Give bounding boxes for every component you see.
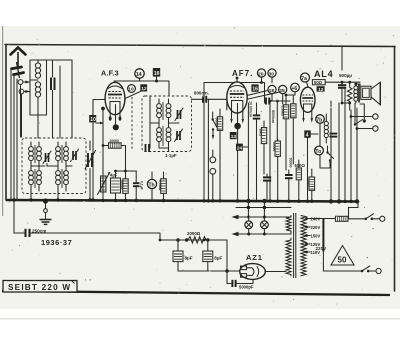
wire y171 node — [116, 170, 137, 171]
wire right vertical to osc — [71, 60, 73, 138]
svg-text:Th: Th — [149, 182, 155, 188]
oscillator coil dashed box — [22, 138, 86, 194]
ground bus — [7, 200, 358, 202]
wire x256 down — [256, 129, 258, 200]
transformer tap 110V — [305, 250, 320, 255]
tone switch — [320, 146, 334, 168]
frame bottom wire — [2, 291, 390, 295]
wire Th stems — [151, 172, 153, 200]
tube AL4 — [300, 87, 315, 112]
wire riser to bandfilter — [168, 81, 170, 96]
mains feed wire top — [308, 218, 335, 221]
capacitor 5000pF — [232, 280, 235, 287]
mains transformer core — [294, 213, 296, 278]
frame right wire — [394, 47, 396, 292]
choke coil — [324, 114, 328, 143]
junction dot bus-ground — [43, 198, 48, 203]
svg-text:50000: 50000 — [215, 118, 219, 128]
svg-text:4µF: 4µF — [110, 173, 118, 178]
bf trimmer 1 — [175, 108, 183, 121]
mains terminal 1 — [380, 216, 385, 221]
lamp wire bottom with arrow — [232, 232, 292, 236]
svg-text:25: 25 — [279, 88, 285, 94]
wire frame drop x342 — [341, 46, 343, 70]
tone cap — [330, 134, 338, 137]
wire anode top to speaker — [356, 84, 360, 86]
junction dots misc — [102, 81, 359, 242]
svg-text:To: To — [315, 149, 321, 155]
tube AF7 — [227, 77, 247, 114]
voltage selector bar — [322, 219, 324, 252]
wire 2000 node down — [226, 240, 228, 271]
tube AF3 — [105, 82, 125, 114]
dashed AVC line — [131, 97, 133, 150]
tube AF3 cathode lead dot — [113, 114, 119, 130]
tube AL4 pin arrows — [302, 118, 304, 123]
svg-text:600Ω: 600Ω — [295, 163, 306, 168]
bf series cap — [146, 144, 150, 152]
osc coil L3b — [64, 142, 69, 166]
svg-text:0,3MΩ: 0,3MΩ — [158, 180, 162, 191]
capacitor 0.1uF — [133, 171, 140, 200]
svg-text:50: 50 — [338, 256, 347, 265]
SEIBT 220 W title box — [3, 281, 77, 293]
wire top of coil box — [38, 59, 72, 61]
cathode cap b — [285, 170, 293, 200]
tag box 10 left — [89, 115, 96, 123]
cathode cap a — [263, 174, 271, 200]
wire right vertical E — [356, 108, 358, 200]
pickup terminal 2 — [210, 168, 216, 200]
svg-text:30000: 30000 — [288, 158, 292, 168]
ground symbol — [40, 202, 52, 225]
feedback resistor zigzag — [347, 82, 352, 103]
tube AF3 pin arrows — [110, 113, 120, 117]
tag box 12b — [317, 86, 325, 92]
svg-text:13: 13 — [231, 134, 237, 140]
resistor 50000b vertical — [217, 109, 222, 200]
svg-text:8µF: 8µF — [214, 256, 222, 261]
transformer tap 240V — [305, 217, 320, 222]
bf trimmer 2 — [175, 129, 183, 142]
svg-text:220V: 220V — [311, 225, 321, 230]
resistor 50ohm box — [312, 80, 325, 85]
svg-text:5000cm: 5000cm — [271, 110, 275, 123]
tag box 16b — [251, 84, 258, 92]
svg-text:12: 12 — [318, 87, 324, 92]
bandfilter dashed box — [142, 96, 192, 152]
tuning cap variable — [85, 141, 96, 200]
svg-text:30: 30 — [269, 71, 275, 77]
tag circle 14 — [135, 69, 144, 81]
svg-text:220V: 220V — [316, 246, 328, 251]
wire AZ1 to transformer — [265, 271, 286, 273]
wire heater return — [178, 270, 227, 272]
svg-text:1MΩ: 1MΩ — [258, 129, 262, 137]
pointer wires to tags — [247, 91, 278, 100]
svg-text:AF7.: AF7. — [232, 69, 253, 78]
resistor 0.3M vertical b — [291, 95, 296, 164]
osc coil L2b — [37, 142, 42, 166]
resistor 10000 horizontal — [103, 143, 126, 170]
wire left vertical 1 — [10, 70, 12, 200]
transformer tap 220V — [305, 225, 320, 230]
wire right vertical B — [338, 103, 340, 200]
tag circle 10 — [128, 85, 136, 93]
wire right vertical D — [350, 110, 352, 200]
svg-text:1936·37: 1936·37 — [41, 238, 72, 247]
screen bypass cap — [253, 103, 260, 129]
pickup terminal 1 — [210, 150, 216, 163]
mains transformer secondary winding — [301, 216, 306, 276]
lamp wire top with arrow — [232, 215, 292, 219]
tube AF7 pin arrows — [230, 119, 232, 124]
wire terminal A down — [20, 85, 22, 138]
grid coupling cap — [192, 96, 227, 103]
svg-text:A.F.3: A.F.3 — [101, 69, 119, 78]
resistor pickup vertical — [161, 172, 167, 200]
svg-text:150Ω: 150Ω — [306, 178, 310, 187]
output transformer — [354, 84, 360, 103]
coupling cap AF7 anode — [265, 98, 291, 105]
wires inside osc box to bus — [31, 164, 72, 201]
frame left wire — [5, 45, 7, 201]
junction dots bus — [12, 198, 359, 203]
bf coil 1a — [157, 99, 162, 123]
resistor 0.3M vertical a — [283, 95, 288, 170]
smoothing wire y240 — [160, 239, 227, 241]
tag box 12 — [125, 84, 147, 98]
wire y233 to psu — [31, 233, 160, 240]
wire x60 — [59, 66, 61, 138]
osc coil L3d — [64, 166, 69, 191]
volume potentiometer — [98, 172, 111, 195]
resistor 2000 zigzag — [185, 237, 210, 243]
bf coil 2a — [157, 123, 162, 148]
tag box 24 — [236, 144, 248, 152]
wire x270 — [269, 101, 271, 200]
wire coil box bottom — [38, 101, 53, 138]
fuse — [335, 216, 364, 221]
resistor bias vertical — [309, 169, 315, 200]
svg-text:2000Ω: 2000Ω — [187, 231, 201, 236]
svg-text:12: 12 — [141, 86, 147, 92]
svg-text:5000pF: 5000pF — [239, 285, 254, 290]
svg-text:500µµ: 500µµ — [339, 73, 352, 78]
wire x277 — [276, 101, 278, 141]
tag circle 7a — [301, 73, 310, 87]
tag circle 18 — [268, 85, 276, 93]
mains switch top — [364, 214, 379, 220]
transformer tap 125V — [305, 242, 320, 247]
svg-text:+6: +6 — [292, 86, 298, 92]
tag stems — [272, 77, 283, 104]
bf coil 2b — [166, 123, 171, 148]
svg-text:20000: 20000 — [272, 142, 276, 152]
wire AZ1 anode left — [227, 270, 240, 272]
resistor 600 vertical — [296, 160, 301, 200]
osc trimmer cap 2 — [71, 149, 79, 162]
junction dots lamp wire — [247, 206, 250, 209]
dial lamp 2 — [261, 216, 269, 236]
osc coil L2a — [29, 142, 34, 166]
tag circle 7b — [316, 115, 325, 146]
wire x248 agc — [247, 103, 249, 201]
osc coil L3a — [56, 142, 61, 166]
bus dogleg — [349, 202, 359, 218]
svg-text:20: 20 — [258, 71, 264, 77]
wire speaker switch — [342, 103, 366, 126]
osc coil cores — [35, 145, 62, 188]
svg-text:14: 14 — [136, 72, 142, 78]
tag box 16 — [153, 68, 160, 83]
svg-text:16: 16 — [252, 86, 258, 92]
tag circle 20 — [257, 69, 265, 83]
osc trimmer cap 1 — [43, 151, 51, 164]
wire box10 to anode line — [96, 122, 101, 124]
wire terminal E down — [21, 94, 23, 137]
tag circle To — [315, 146, 324, 155]
electrolytic 4uF — [111, 171, 121, 200]
tag circle Th — [147, 179, 156, 188]
svg-text:7a: 7a — [301, 76, 307, 82]
dial lamp feed wire — [236, 201, 291, 217]
input coil L1 — [30, 60, 47, 115]
resistor 50000c vertical — [261, 121, 266, 174]
resistor 20000 vertical — [275, 139, 280, 200]
wire right vertical C — [344, 89, 346, 200]
frame top wire — [5, 45, 395, 47]
svg-text:10000: 10000 — [110, 139, 120, 143]
output terminal 2 — [357, 126, 378, 131]
bf coil 1b — [166, 99, 171, 123]
mains transformer HV winding left — [286, 238, 291, 276]
tube AF7 cathode dot — [234, 113, 241, 200]
osc coil L2c — [29, 166, 34, 191]
dial lamp 1 — [245, 216, 253, 236]
earth terminal E — [19, 89, 30, 94]
tube AZ1 — [240, 264, 266, 280]
tone cap 500 — [338, 85, 346, 103]
wire x208 grid return — [207, 99, 209, 200]
antenna plug contacts — [12, 62, 24, 78]
bf coil cores — [162, 102, 164, 146]
mains terminal 2 — [376, 268, 381, 273]
wire x103 — [102, 110, 104, 200]
svg-text:8µF: 8µF — [185, 256, 193, 261]
mains switch bottom — [361, 266, 376, 272]
svg-text:800cm.: 800cm. — [194, 91, 209, 96]
tag circle 30 — [268, 69, 276, 77]
junction dot AZ1 — [225, 269, 229, 273]
wire AF3 anode top — [114, 81, 169, 82]
svg-text:AL4: AL4 — [314, 69, 333, 79]
anode wire AL4 — [325, 82, 360, 84]
tag box 13 — [230, 132, 237, 140]
capacitor C1 — [51, 60, 55, 101]
tag box 4 — [304, 130, 318, 200]
output terminal 1 — [351, 114, 378, 119]
bf inner wires — [150, 96, 179, 152]
osc coil L2d — [37, 166, 42, 191]
osc coil L3c — [56, 166, 61, 191]
svg-text:10.000cm: 10.000cm — [249, 101, 253, 117]
fuse triangle mark 50 — [331, 246, 354, 266]
svg-text:SEIBT 220 W: SEIBT 220 W — [8, 283, 71, 292]
tag circle +6 — [291, 83, 300, 92]
wire box10 to bus — [92, 122, 94, 200]
svg-text:7b: 7b — [316, 117, 322, 123]
electrolytic 8uF b — [203, 240, 213, 271]
wire left vertical 2 — [13, 76, 15, 200]
antenna terminal A — [18, 80, 30, 85]
wire right vertical A — [330, 101, 332, 200]
transformer tap 150V — [305, 234, 320, 239]
AF7 screen box wire — [204, 83, 265, 201]
wire to blocking cap — [14, 200, 24, 233]
wave switch — [212, 112, 218, 140]
selector to switch wire — [323, 252, 360, 272]
wire AF3 grid left — [93, 100, 105, 116]
capacitor 250cm — [26, 229, 30, 237]
antenna — [11, 48, 26, 68]
svg-text:50000: 50000 — [120, 180, 124, 190]
svg-text:50Ω: 50Ω — [314, 80, 323, 85]
svg-text:AZ1: AZ1 — [246, 253, 263, 262]
svg-text:24: 24 — [237, 145, 243, 151]
electrolytic 8uF a — [173, 238, 183, 271]
resistor 50000 vertical — [123, 170, 128, 200]
svg-text:0,3MΩ: 0,3MΩ — [281, 106, 285, 117]
wire screen node — [286, 92, 295, 95]
wire x226.8 grid — [226, 99, 228, 110]
mains transformer primary heater winding — [286, 216, 291, 235]
speaker — [361, 82, 381, 105]
tag circle 25 — [279, 85, 287, 93]
wire left vertical 3 — [16, 79, 18, 199]
svg-text:10: 10 — [128, 87, 134, 93]
buffer cap loop — [227, 271, 253, 284]
svg-text:150V: 150V — [311, 234, 321, 239]
svg-text:1·1µF: 1·1µF — [165, 153, 177, 158]
svg-text:0,1µF: 0,1µF — [140, 181, 144, 190]
